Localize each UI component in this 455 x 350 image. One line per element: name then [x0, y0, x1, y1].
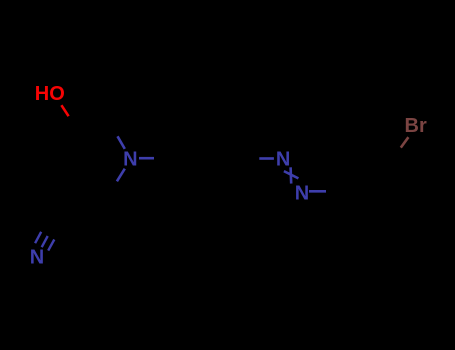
svg-text:N: N: [123, 149, 137, 171]
svg-text:N: N: [276, 149, 290, 171]
svg-text:N: N: [295, 182, 309, 204]
svg-text:Br: Br: [405, 115, 427, 137]
svg-text:N: N: [30, 247, 44, 269]
svg-text:HO: HO: [35, 83, 65, 105]
